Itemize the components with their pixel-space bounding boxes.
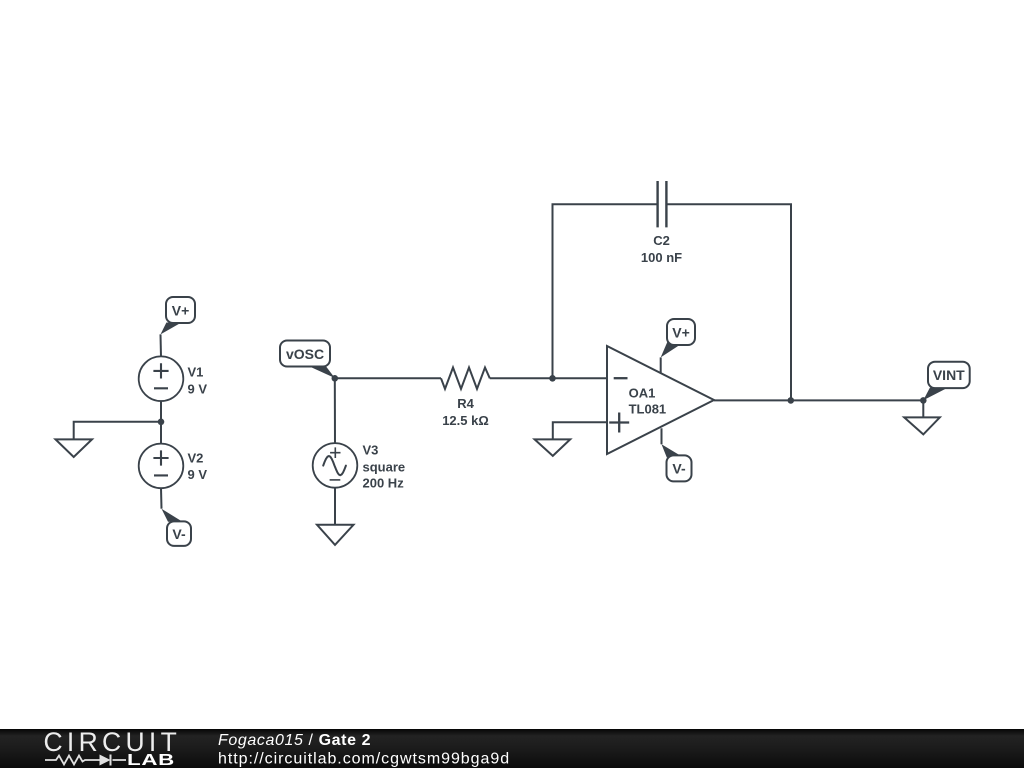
voltage source V2 [139,444,208,489]
ground (output) [904,417,940,434]
svg-text:LAB: LAB [127,752,175,768]
wire V2 to V- flag [160,488,163,509]
svg-text:Fogaca015 / Gate 2: Fogaca015 / Gate 2 [218,732,371,749]
svg-text:OA1: OA1 [629,386,656,401]
wire R4 to op-amp inverting input [490,377,607,379]
wire V1 to V2 [160,401,162,445]
wire feedback right side [666,204,791,400]
voltage source V3 (square 200 Hz) [313,443,405,491]
ground (left) [56,439,93,457]
svg-text:http://circuitlab.com/cgwtsm99: http://circuitlab.com/cgwtsm99bga9d [218,751,510,768]
footer title text [218,732,510,768]
junction node at feedback takeoff [549,375,556,382]
net flag V+ (top left) [161,297,196,334]
wire V+ to V1 [160,334,163,357]
net flag V- (op-amp supply) [662,444,692,481]
svg-text:V3: V3 [363,443,379,458]
wire vOSC to V3 [334,378,336,443]
net flag vOSC [280,341,335,379]
wire VINT to ground [922,400,924,417]
svg-text:C2: C2 [653,233,670,248]
svg-text:9 V: 9 V [188,467,208,482]
svg-text:V+: V+ [672,324,690,340]
ground (below V3) [317,525,354,545]
op-amp V+ supply pin wire [660,357,662,372]
svg-text:TL081: TL081 [629,401,667,416]
junction node VINT [920,397,927,404]
svg-text:9 V: 9 V [188,381,208,396]
svg-text:R4: R4 [457,396,474,411]
net flag VINT [923,362,969,401]
svg-text:V+: V+ [172,302,190,318]
svg-text:V1: V1 [188,365,204,380]
capacitor C2 [641,181,682,265]
junction node between V1 and V2 [158,419,165,426]
junction node feedback/output [788,397,795,404]
op-amp V- supply pin wire [661,428,663,444]
ground (op-amp + input) [535,439,571,456]
svg-text:12.5 kΩ: 12.5 kΩ [442,413,489,428]
svg-text:vOSC: vOSC [286,346,324,362]
svg-text:100 nF: 100 nF [641,250,682,265]
svg-text:V-: V- [672,461,686,477]
junction node vOSC [332,375,339,382]
wire non-inverting input to ground [553,422,607,439]
op-amp OA1 TL081 [607,346,714,454]
wire op-amp output [714,399,923,401]
wire V3 to ground [334,488,336,525]
footer bar [0,729,1024,768]
resistor R4 [441,368,490,428]
net flag V+ (op-amp supply) [661,319,695,357]
svg-text:VINT: VINT [933,367,965,383]
svg-text:V-: V- [172,526,186,542]
net flag V- (bottom left) [162,509,192,546]
voltage source V1 [139,356,208,401]
wire vOSC to resistor R4 [335,377,441,379]
wire feedback left vertical [553,204,658,378]
svg-text:V2: V2 [188,451,204,466]
svg-text:200 Hz: 200 Hz [363,476,405,491]
wire junction to ground [74,422,161,440]
CircuitLab logo [44,727,182,768]
svg-text:square: square [363,460,406,475]
